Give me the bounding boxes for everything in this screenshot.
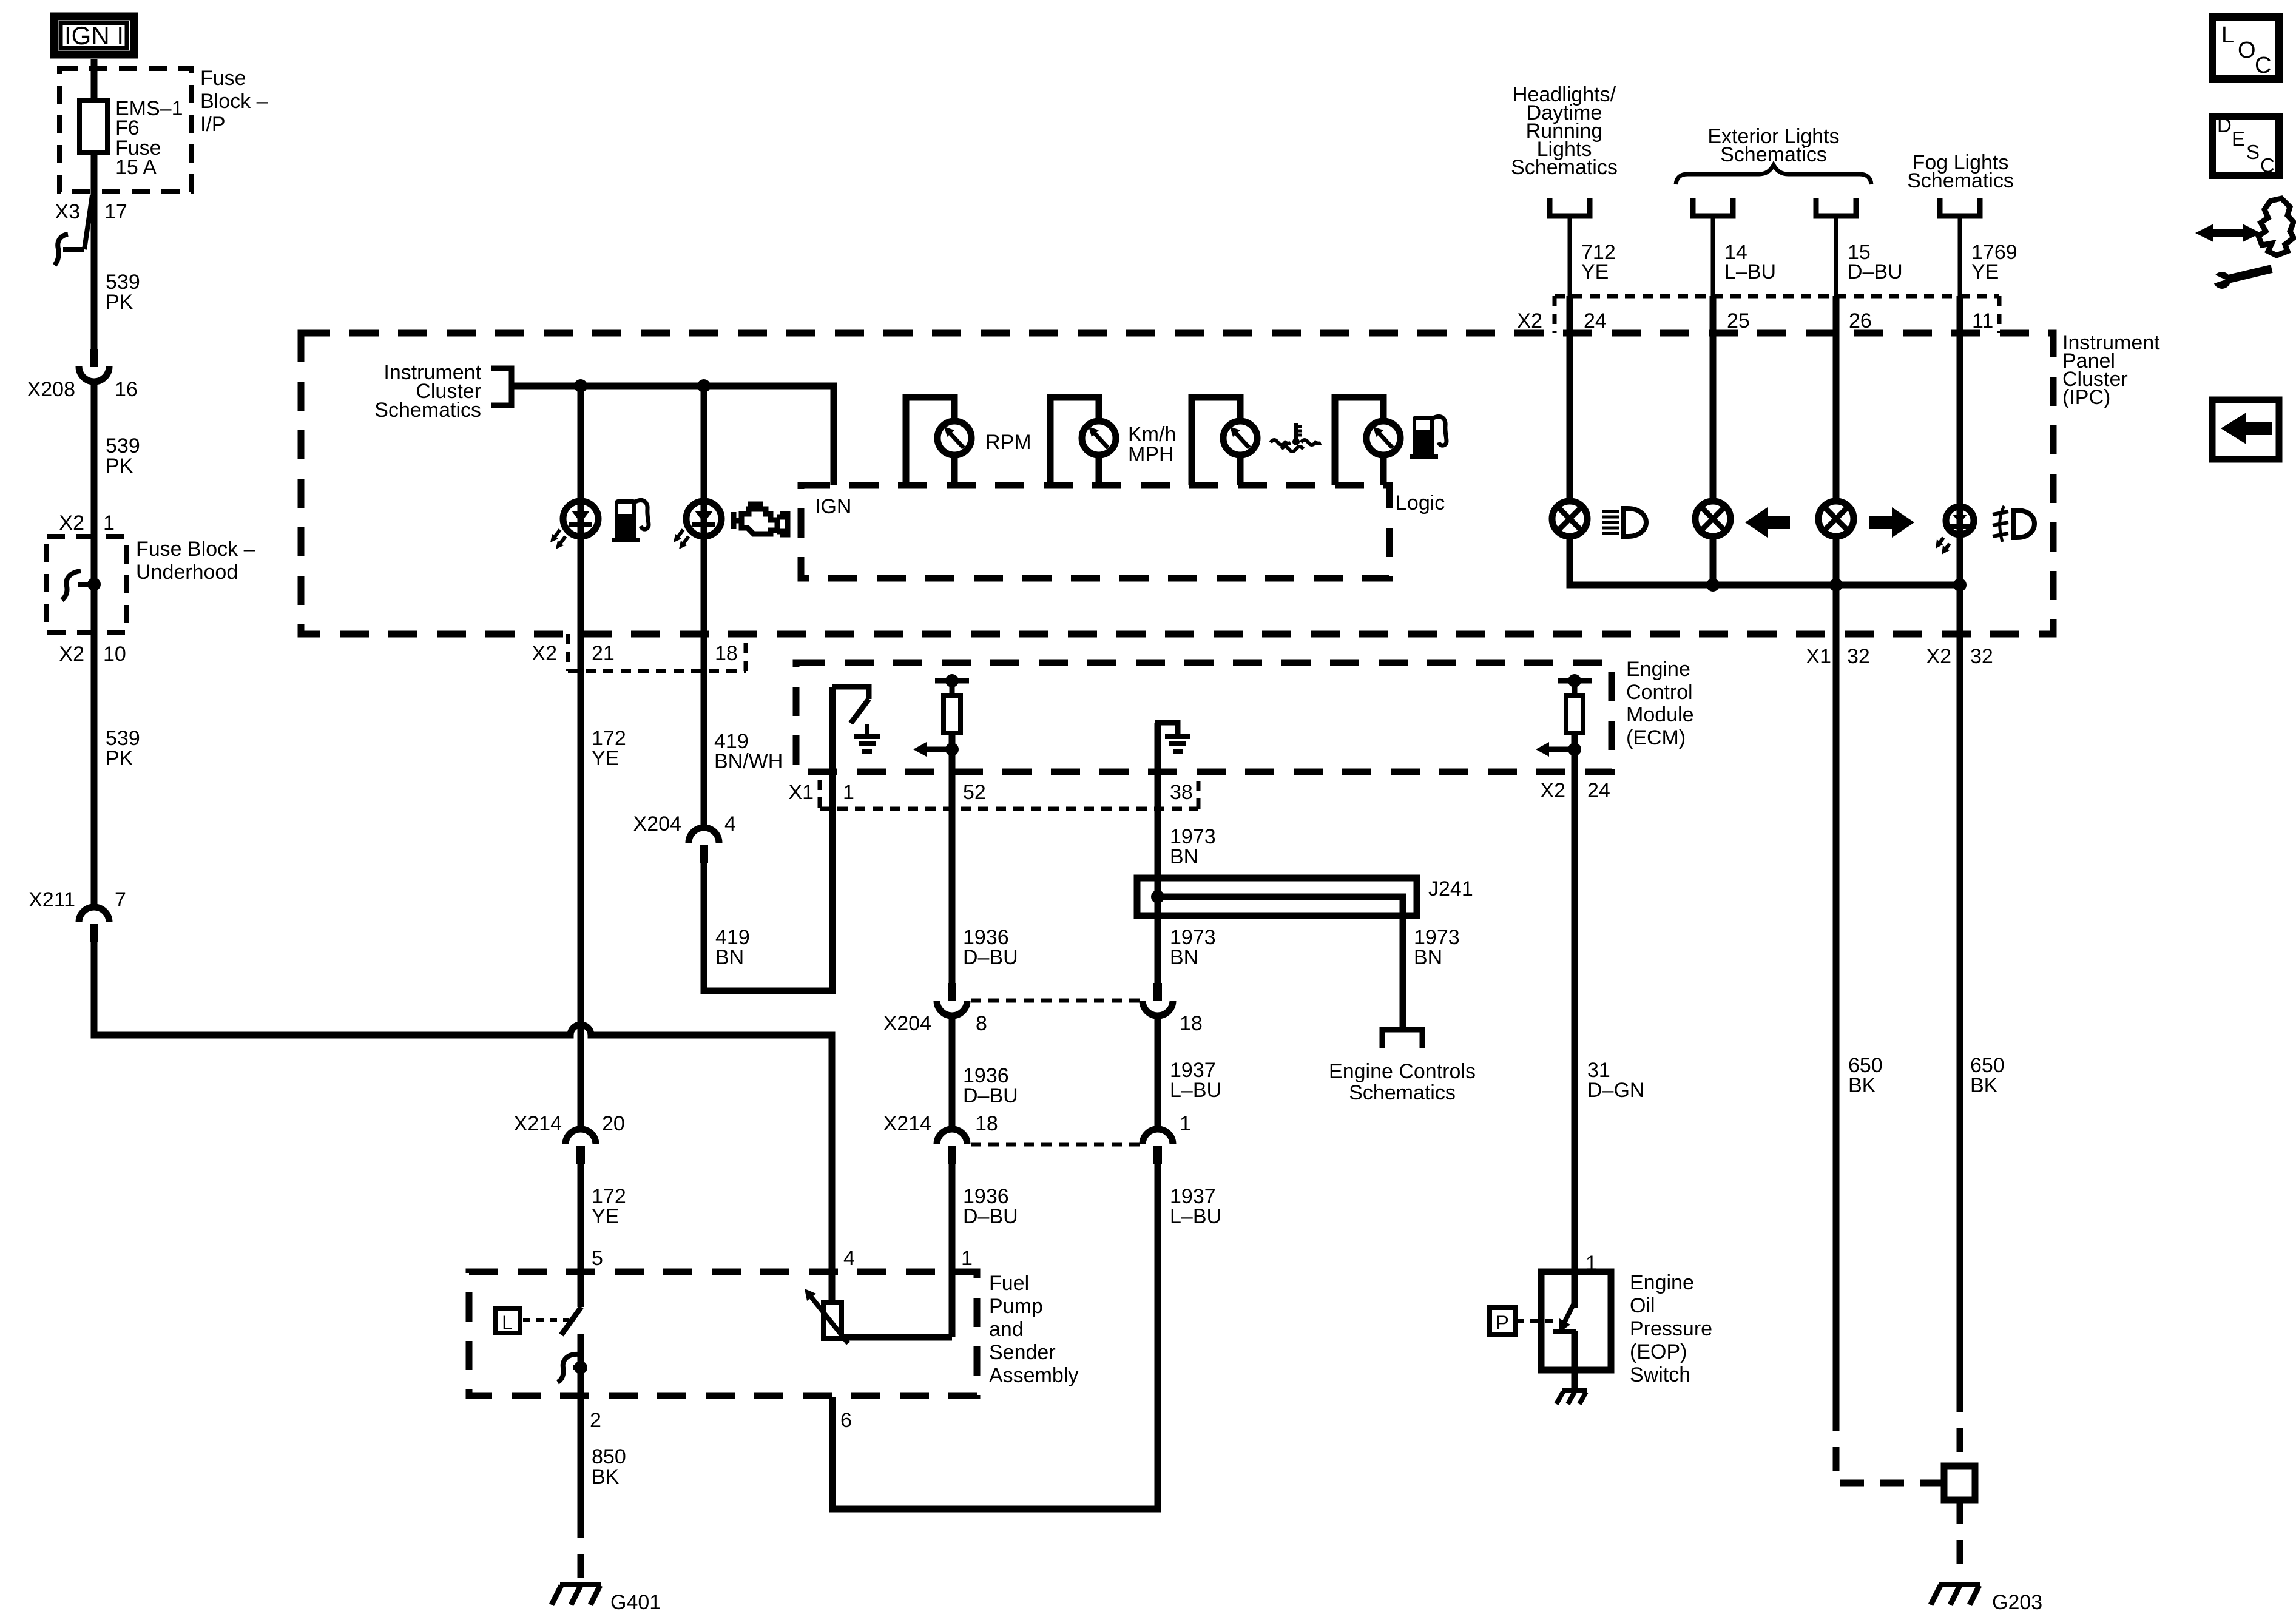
svg-text:D: D (2217, 114, 2232, 137)
svg-text:X3: X3 (55, 200, 80, 223)
fuel pump thermal splice symbol (558, 1354, 578, 1382)
wire from IGN I to fuse EMS-1 (91, 59, 98, 101)
wire 712 YE stub (1568, 216, 1572, 333)
wire left turn lamp feed (1710, 296, 1717, 502)
DESC reference box (2212, 116, 2279, 175)
pressure symbol box P (1490, 1308, 1516, 1334)
svg-text:BN: BN (1170, 946, 1198, 969)
svg-text:1: 1 (1180, 1112, 1191, 1135)
fuel pump internal switch blade (561, 1307, 581, 1335)
svg-text:X204: X204 (633, 812, 681, 836)
ground at EOP switch (1562, 1388, 1587, 1393)
wire 419 BN/WH from engine lamp to X204-4 (701, 516, 707, 830)
wire 14 L-BU stub (1711, 216, 1715, 333)
svg-text:18: 18 (975, 1112, 998, 1135)
hand with double arrow icon (2211, 229, 2245, 237)
svg-text:O: O (2238, 38, 2256, 63)
LOC reference box (2212, 17, 2279, 79)
svg-text:7: 7 (115, 888, 126, 911)
wire left turn lamp to bus (1710, 536, 1717, 585)
fuel level sender wiper arrow (809, 1295, 848, 1343)
svg-text:Switch: Switch (1630, 1363, 1690, 1386)
connector pair dotted line X204 row (971, 999, 1140, 1003)
svg-text:IGN: IGN (815, 495, 851, 518)
svg-text:18: 18 (1180, 1012, 1203, 1035)
svg-text:Block –: Block – (200, 90, 268, 113)
wire 1937 L-BU to fuel pump pin 6 (832, 1164, 1158, 1509)
svg-text:Control: Control (1626, 681, 1693, 704)
svg-text:38: 38 (1170, 781, 1193, 804)
inline connector X211 pin 7 (79, 907, 109, 922)
svg-text:YE: YE (1581, 260, 1609, 283)
svg-text:BN/WH: BN/WH (714, 750, 783, 773)
Engine Control Module (ECM) dashed box (796, 663, 1612, 772)
inline connector X214 pin 18 (937, 1129, 967, 1144)
svg-text:17: 17 (104, 200, 127, 223)
fuel pump motor box L (495, 1308, 520, 1333)
svg-text:4: 4 (843, 1247, 855, 1270)
svg-text:18: 18 (715, 642, 738, 665)
svg-text:X2: X2 (532, 642, 557, 665)
junction dot in J241 (1151, 890, 1164, 903)
wire switch to fuel pump pin 2 (578, 1334, 584, 1397)
svg-text:Schematics: Schematics (1511, 156, 1618, 179)
dashed wire 850 BK to G401 (578, 1514, 584, 1579)
svg-text:X214: X214 (883, 1112, 931, 1135)
wire fog lamp feed (1957, 296, 1963, 522)
gauge coolant temperature (1192, 397, 1240, 485)
connector row X2 21/18 dotted box (566, 634, 570, 671)
svg-text:MPH: MPH (1128, 443, 1174, 466)
svg-text:X214: X214 (514, 1112, 562, 1135)
wire 1769 YE stub (1958, 216, 1962, 333)
svg-text:YE: YE (592, 1205, 619, 1228)
svg-text:8: 8 (976, 1012, 987, 1035)
svg-text:32: 32 (1970, 645, 1993, 668)
dashed link P to switch (1516, 1319, 1555, 1323)
wire 1936 D-BU from ECM pin 52 (949, 733, 956, 983)
svg-text:5: 5 (592, 1247, 603, 1270)
sender link to pin 1 (840, 1334, 952, 1341)
svg-text:G401: G401 (610, 1591, 661, 1614)
splice branch wire inside J241 (1158, 897, 1403, 1030)
svg-text:Schematics: Schematics (374, 399, 481, 422)
fuse EMS-1 F6 15 A (79, 101, 107, 153)
indicator lamp fog lights (LED) (1946, 507, 1974, 535)
svg-text:PK: PK (106, 747, 133, 770)
svg-text:25: 25 (1727, 309, 1750, 333)
inline connector X204 pin 18 (1153, 983, 1162, 1001)
svg-text:YE: YE (592, 747, 619, 770)
dashed wire 650 BK left to ground splice (1836, 1406, 1944, 1483)
svg-text:X2: X2 (1926, 645, 1951, 668)
svg-text:Fuel: Fuel (989, 1272, 1029, 1295)
dashed link motor to switch (523, 1318, 569, 1322)
svg-text:X2: X2 (1540, 779, 1565, 802)
connector pair dotted line X214 row (971, 1143, 1140, 1147)
svg-text:1: 1 (961, 1247, 973, 1270)
ground G203 (1939, 1582, 1980, 1587)
indicator lamp fuel (LED) (563, 501, 598, 536)
wire 1936 D-BU between X204-8 and X214-18 (949, 1017, 956, 1130)
wire headlight lamp feed (1567, 296, 1573, 502)
svg-text:BK: BK (592, 1465, 620, 1488)
svg-text:and: and (989, 1318, 1024, 1341)
svg-text:X2: X2 (59, 643, 84, 666)
junction dot bus 2 (1829, 578, 1843, 592)
svg-text:L–BU: L–BU (1724, 260, 1776, 283)
inline connector X204 pin 4 (689, 828, 719, 843)
indicator lamp right turn (1818, 501, 1854, 536)
svg-text:21: 21 (592, 642, 615, 665)
svg-text:Pump: Pump (989, 1295, 1043, 1318)
svg-text:RPM: RPM (985, 431, 1032, 454)
svg-text:PK: PK (106, 291, 133, 314)
svg-text:4: 4 (724, 812, 736, 836)
svg-text:BK: BK (1970, 1074, 1998, 1097)
svg-text:BN: BN (1170, 845, 1198, 868)
svg-text:C: C (2255, 53, 2271, 78)
svg-text:BN: BN (715, 946, 744, 969)
svg-text:(EOP): (EOP) (1630, 1340, 1687, 1363)
off-page bracket Instrument Cluster Schematics (491, 368, 512, 405)
svg-text:PK: PK (106, 454, 133, 478)
svg-text:X1: X1 (1806, 645, 1831, 668)
off-page connector headlights (1550, 198, 1590, 216)
svg-text:L: L (2221, 22, 2234, 48)
svg-text:X2: X2 (1517, 309, 1542, 333)
svg-text:24: 24 (1587, 779, 1610, 802)
svg-text:L–BU: L–BU (1170, 1079, 1221, 1102)
svg-text:24: 24 (1584, 309, 1607, 333)
svg-text:Oil: Oil (1630, 1294, 1655, 1317)
left turn arrow icon (1745, 507, 1790, 538)
fuel pump icon (indicator) (615, 499, 636, 538)
ground G401 (560, 1582, 601, 1587)
off-page connector Engine Controls Schematics (1382, 1030, 1422, 1048)
svg-text:I/P: I/P (200, 113, 226, 136)
wire 31 D-GN from ECM X2-24 to EOP switch (1572, 733, 1578, 1308)
inline connector X204 pin 8 (948, 983, 956, 1001)
wire 1937 L-BU between X204-18 and X214-1 (1155, 1017, 1161, 1130)
wire 15 D-BU stub (1834, 216, 1838, 333)
wire to fuel indicator lamp (578, 386, 584, 522)
svg-text:D–BU: D–BU (963, 1084, 1018, 1107)
svg-text:BK: BK (1848, 1074, 1876, 1097)
headlight icon (1602, 510, 1619, 513)
wire 850 BK from fuel pump pin 2 (578, 1396, 584, 1514)
svg-text:YE: YE (1971, 260, 1999, 283)
ECM pull-up resistor at pin 52 (950, 681, 955, 695)
svg-text:X1: X1 (788, 781, 814, 804)
wire right turn lamp feed (1833, 296, 1840, 502)
wire 539 PK / 1739 PK to fuel pump pin 4 (hops over 172 YE wire) (94, 942, 832, 1302)
svg-text:1: 1 (103, 511, 115, 535)
coolant temperature icon (1294, 423, 1298, 439)
splice symbol inside fuse block underhood (62, 571, 81, 600)
svg-text:Module: Module (1626, 703, 1694, 726)
svg-text:L: L (502, 1312, 513, 1334)
indicator lamp check engine (LED) (686, 501, 721, 536)
svg-text:Sender: Sender (989, 1341, 1056, 1364)
svg-text:Engine: Engine (1626, 658, 1690, 681)
svg-text:IGN I: IGN I (64, 21, 124, 50)
junction dot at engine lamp tap (697, 379, 711, 393)
svg-text:11: 11 (1972, 309, 1993, 333)
svg-text:D–GN: D–GN (1587, 1079, 1644, 1102)
wire 419 BN from X204-4 to ECM pin X1-1 (704, 687, 832, 991)
svg-text:Assembly: Assembly (989, 1364, 1078, 1387)
svg-text:J241: J241 (1428, 877, 1473, 900)
svg-text:Fuse: Fuse (200, 67, 246, 90)
fuel pump and sender assembly dashed box (469, 1272, 977, 1396)
wire 539 PK to fuse block underhood (91, 382, 98, 910)
wire 172 YE from fuel lamp to X214-20 (578, 516, 584, 1130)
svg-text:X204: X204 (883, 1012, 931, 1035)
svg-text:D–BU: D–BU (1848, 260, 1903, 283)
svg-text:Pressure: Pressure (1630, 1317, 1712, 1340)
svg-text:E: E (2232, 127, 2245, 150)
wire fuel pump pin 5 into switch (578, 1272, 584, 1307)
inline connector X214 pin 20 (566, 1129, 596, 1144)
dashed wire ground splice to G203 (1957, 1500, 1963, 1569)
power source box IGN I (54, 16, 134, 55)
svg-text:20: 20 (602, 1112, 625, 1135)
svg-text:16: 16 (115, 378, 138, 401)
fuel pump icon (gauge) (1413, 416, 1434, 454)
svg-text:10: 10 (103, 643, 126, 666)
fog light icon (1993, 511, 2008, 515)
EOP switch contact (1553, 1329, 1576, 1334)
svg-text:C: C (2260, 154, 2275, 177)
dashed wire 650 BK right to ground splice (1957, 1388, 1963, 1466)
fuse block underhood dashed box (47, 536, 127, 633)
inline connector X208 pin 16 (90, 349, 98, 367)
wire 539 PK below fuse (91, 153, 98, 349)
wire right turn lamp to bus / X1-32 (1833, 536, 1840, 1406)
lamp common bus (1570, 536, 1960, 585)
ECM output arrow at pin X2-24 (1548, 747, 1575, 752)
svg-text:S: S (2246, 141, 2260, 163)
svg-text:Engine Controls: Engine Controls (1329, 1060, 1476, 1083)
junction dot bus 1 (1706, 578, 1720, 592)
ECM internal switch at pin X1-1 (832, 687, 869, 699)
svg-text:(ECM): (ECM) (1626, 726, 1686, 749)
svg-text:X2: X2 (59, 511, 84, 535)
fuel level sender resistor (823, 1302, 842, 1338)
off-page connector fog lights (1940, 198, 1980, 216)
off-page connector exterior lights left (1693, 198, 1733, 216)
engine oil pressure switch box (1541, 1272, 1611, 1370)
svg-text:D–BU: D–BU (963, 946, 1018, 969)
wire to engine indicator lamp (701, 386, 707, 522)
IPC logic dashed box (801, 485, 1389, 578)
ECM internal ground at pin 38 (1158, 723, 1178, 779)
wire IGN feed inside IPC (512, 386, 834, 485)
connector row X2 (IPC top) dotted box (1555, 294, 1999, 299)
ECM internal ground (pin 1 switch) (865, 724, 869, 737)
svg-text:Logic: Logic (1396, 491, 1445, 515)
gauge speedometer (1050, 397, 1099, 485)
wire 1973 BN from ECM pin 38 through J241 (1155, 723, 1161, 983)
wire fog lamp to bus / X2-32 (1957, 516, 1963, 1388)
junction dot bus 3 (1953, 578, 1967, 592)
brace for exterior lights schematics (1676, 165, 1871, 184)
svg-text:52: 52 (963, 781, 986, 804)
svg-text:32: 32 (1847, 645, 1870, 668)
svg-text:Schematics: Schematics (1907, 169, 2014, 192)
svg-text:1: 1 (843, 781, 854, 804)
svg-text:15 A: 15 A (115, 156, 157, 179)
ECM pull-up resistor at pin X2-24 (1572, 681, 1578, 695)
svg-text:D–BU: D–BU (963, 1205, 1018, 1228)
connector X3 pin 17 lock symbol (84, 195, 92, 249)
right turn arrow icon (1869, 507, 1914, 538)
svg-text:L–BU: L–BU (1170, 1205, 1221, 1228)
back arrow box (2212, 400, 2279, 459)
fuse block I/P dashed box (59, 69, 192, 192)
svg-text:Engine: Engine (1630, 1271, 1694, 1294)
indicator lamp left turn (1695, 501, 1730, 536)
gauge fuel level (1335, 397, 1383, 485)
indicator lamp headlights (1552, 501, 1587, 536)
junction dot at fuel lamp tap (574, 379, 587, 393)
svg-text:P: P (1496, 1312, 1508, 1334)
off-page connector exterior lights right (1816, 198, 1856, 216)
gauge RPM (906, 397, 954, 485)
svg-text:(IPC): (IPC) (2062, 386, 2110, 409)
svg-text:G203: G203 (1992, 1591, 2042, 1614)
svg-text:X208: X208 (27, 378, 75, 401)
inline connector X214 pin 1 (1143, 1129, 1173, 1144)
wire 1936 D-BU to fuel pump pin 1 (949, 1164, 956, 1337)
svg-text:2: 2 (590, 1409, 601, 1432)
EOP switch blade with arrow (1564, 1302, 1575, 1324)
svg-text:Schematics: Schematics (1349, 1081, 1456, 1104)
svg-text:26: 26 (1849, 309, 1872, 333)
svg-text:BN: BN (1414, 946, 1442, 969)
wire 172 YE to fuel pump pin 5 (578, 1164, 584, 1306)
wire EOP contact to ground (1572, 1331, 1578, 1389)
svg-text:6: 6 (840, 1409, 852, 1432)
ECM connector row X1 dotted box (818, 780, 822, 809)
engine icon (indicator) (741, 509, 777, 534)
svg-text:Fuse Block –: Fuse Block – (136, 538, 255, 561)
svg-text:X211: X211 (29, 888, 75, 911)
splice J241 block (1137, 878, 1417, 916)
ECM output arrow at pin 52 (925, 747, 952, 752)
ground splice box G203 (1944, 1466, 1975, 1500)
Instrument Panel Cluster (IPC) dashed box (301, 333, 2053, 634)
svg-text:Underhood: Underhood (136, 561, 238, 584)
